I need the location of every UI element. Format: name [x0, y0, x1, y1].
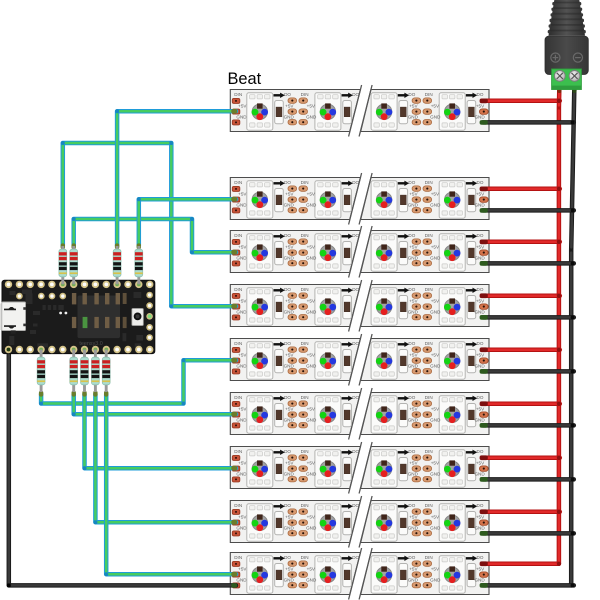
NeoPixel LED strip row 5 (two cut segments with break mark) — [230, 334, 489, 386]
wire: black GND return from strip row 9 — [483, 583, 574, 588]
NeoPixel LED strip row 8 (two cut segments with break mark) — [230, 496, 489, 548]
wire: black GND return from strip row 7 — [483, 477, 574, 482]
Teensy pin header pads (bottom row pins 15-28) — [5, 346, 154, 353]
wire: red +5V feed to strip row 3 — [483, 240, 560, 245]
wire: black GND trunk from barrel jack - terminal down right side — [571, 89, 574, 585]
data wire: resistor R4 to strip row 2 DIN — [139, 199, 236, 246]
NeoPixel LED strip row 2 (two cut segments with break mark) — [230, 173, 489, 225]
NeoPixel LED strip row 9 (two cut segments with break mark) — [230, 548, 489, 600]
wire: red +5V feed to strip row 7 — [483, 456, 560, 461]
data wire: resistor R3 to strip row 1 DIN — [117, 111, 236, 246]
NeoPixel LED strip row 1 (two cut segments with break mark) — [230, 85, 489, 137]
resistor R4 (above board, data line) — [135, 246, 143, 284]
resistor R6 (below board, data line) — [70, 350, 78, 393]
data wire: resistor R1 to strip row 4 DIN — [63, 143, 236, 306]
wire: black GND from Teensy GND pin along left and bottom to strip row 9 GND — [9, 350, 236, 586]
NeoPixel LED strip row 6 (two cut segments with break mark) — [230, 388, 489, 440]
Teensy right edge pad column — [146, 292, 153, 341]
wire: black GND return from strip row 5 — [483, 369, 574, 374]
resistor R8 (below board, data line) — [92, 350, 100, 393]
Teensy micro-USB connector — [0, 302, 26, 334]
NeoPixel LED strip row 3 (two cut segments with break mark) — [230, 226, 489, 278]
DC barrel jack screw-terminal adapter J1 — [545, 0, 588, 90]
wire: red +5V feed to strip row 5 — [483, 348, 560, 353]
svg-text:Beat: Beat — [228, 70, 262, 88]
resistor R1 (above board, data line) — [59, 246, 67, 284]
wire: black GND return from strip row 4 — [483, 315, 574, 320]
wire: red +5V feed to strip row 2 — [483, 187, 560, 192]
wire: red +5V feed to strip row 9 — [483, 562, 559, 567]
data wire: resistor R6 to strip row 6 DIN — [74, 394, 236, 414]
data wire: resistor R8 to strip row 8 DIN — [95, 394, 236, 522]
resistor R3 (above board, data line) — [113, 246, 121, 284]
wire: black GND return from strip row 8 — [483, 531, 574, 536]
Teensy main MCU chip — [72, 293, 127, 338]
svg-text:teensy3.0: teensy3.0 — [79, 341, 102, 347]
wire: red +5V feed to strip row 8 — [483, 510, 560, 515]
NeoPixel LED strip row 7 (two cut segments with break mark) — [230, 442, 489, 494]
wire: red +5V trunk from barrel jack + terminal down right side — [557, 89, 562, 564]
Teensy fiducial dots — [59, 312, 67, 315]
resistor R2 (above board, data line) — [70, 246, 78, 284]
wire: red +5V feed to strip row 4 — [483, 294, 560, 299]
wire: black GND return from strip row 3 — [483, 261, 574, 266]
data wire: resistor R5 to strip row 5 DIN — [41, 360, 236, 403]
Teensy pin header pads (top row pins 1-14) — [5, 281, 154, 288]
Teensy reset button — [132, 309, 143, 326]
resistor R5 (below board, data line) — [37, 350, 45, 393]
data wire: resistor R9 to strip row 9 DIN — [106, 394, 236, 574]
wire: black GND return from strip row 1 — [483, 120, 574, 125]
wire: red +5V feed to strip row 6 — [483, 402, 560, 407]
wire: black GND return from strip row 6 — [483, 423, 574, 428]
data wire: resistor R2 to strip row 3 DIN — [74, 219, 236, 252]
wire: black GND return from strip row 2 — [483, 208, 574, 213]
NeoPixel LED strip row 4 (two cut segments with break mark) — [230, 280, 489, 332]
wire: red +5V feed to strip row 1 — [483, 99, 560, 104]
Teensy 3.0 microcontroller board U1 — [2, 280, 155, 353]
Teensy inner pads row — [16, 293, 66, 300]
data wire: resistor R7 to strip row 7 DIN — [85, 394, 237, 468]
resistor R7 (below board, data line) — [81, 350, 89, 393]
resistor R9 (below board, data line) — [102, 350, 110, 393]
